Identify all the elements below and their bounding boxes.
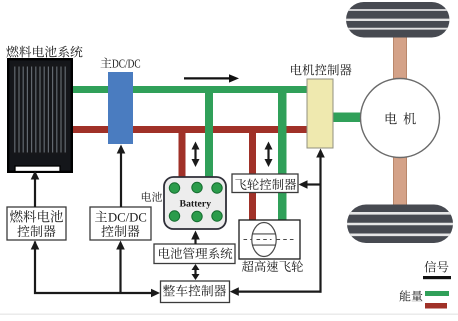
upper half shaft [394,36,407,80]
signal: bidirectional BMS-VCU [192,264,200,280]
signal: DC/DC controller to converter [117,145,126,208]
DC/DC controller text line2 [101,225,139,237]
battery label CJK [142,192,162,202]
signal: fuel cell controller to stack [31,171,40,208]
vehicle controller box [161,281,230,303]
signal: bidirectional bus-flywheel [265,142,273,168]
motor label [386,112,416,124]
flywheel controller text [235,178,296,189]
wire green DC bus [70,86,308,93]
fuel cell controller text line1 [10,210,63,222]
battery pack [164,177,226,229]
signal: BMS to battery [191,231,200,245]
legend energy green [425,291,449,296]
flywheel label [242,260,303,272]
motor controller label [291,64,351,76]
DC/DC converter box [108,72,133,144]
legend energy text [399,290,422,301]
wire green drop to battery [205,91,213,177]
BMS text [159,247,232,259]
wire red DC bus [70,126,308,133]
DC/DC controller text latin [108,213,146,222]
bottom rule [0,314,458,315]
DC/DC controller text CJK [95,211,107,222]
flow direction arrow [184,74,239,82]
wire green motor link [331,113,362,123]
upper tire [346,2,450,38]
motor circle [361,79,440,158]
fuel cell controller box [7,207,66,240]
DC/DC label latin [112,60,140,68]
flywheel box [239,220,300,259]
fuel cell controller text line2 [17,225,55,237]
wire green drop to flywheel [278,91,287,221]
battery label text [180,200,211,209]
fuel cell stack [8,59,72,172]
lower half shaft [394,156,407,206]
signal: DC/DC controller riser [116,241,125,294]
legend energy red [425,303,447,309]
signal: VCU bottom bus [31,241,160,298]
signal: trunk to VCU [230,287,322,296]
battery management system box [154,244,235,264]
flywheel controller box [232,174,298,193]
DC/DC label CJK [101,57,112,67]
legend signal text [424,261,448,273]
legend signal line [423,276,451,279]
signal: right trunk to motor controller [316,149,325,293]
wire red drop to battery [179,131,186,177]
vehicle controller text [163,285,226,297]
fuel cell system label [6,46,82,58]
signal: branch to flywheel controller [299,180,321,189]
motor controller box [307,79,333,148]
signal: bidirectional bus-battery [192,142,200,168]
lower tire [347,205,453,244]
wire red drop to flywheel [249,131,256,221]
DC/DC controller box [90,207,151,240]
